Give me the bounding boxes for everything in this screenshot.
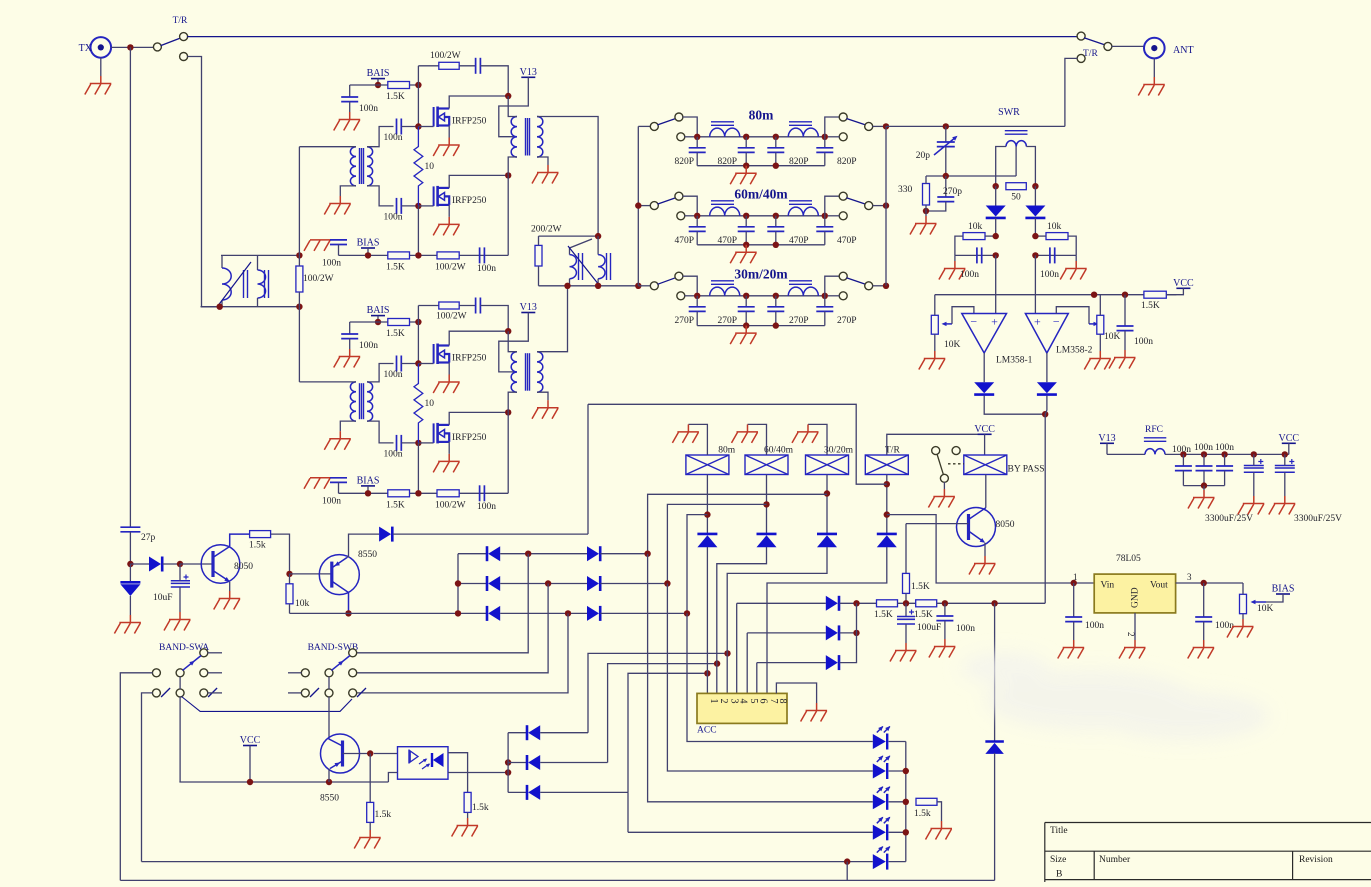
svg-text:10k: 10k (968, 222, 983, 232)
ground rfc caps (1188, 490, 1215, 509)
svg-text:1.5K: 1.5K (386, 92, 405, 102)
svg-text:820P: 820P (789, 157, 809, 167)
wire T3 w1 top lead (570, 239, 593, 255)
svg-text:100n: 100n (1172, 445, 1191, 455)
switch LPF-60m40m right nc (839, 212, 847, 220)
capacitor 100n PA-B gate2 (397, 435, 402, 451)
wire fwd down1 (995, 186, 997, 205)
wire bus link (846, 862, 848, 881)
svg-text:100/2W: 100/2W (436, 312, 467, 322)
junction PA-A gate2 (415, 203, 421, 209)
wire T3 w1 bottom lead (569, 279, 571, 286)
switch LPF-80m right throw (839, 113, 847, 121)
junction led2 chain (903, 768, 909, 774)
PA-B net V13 bar (521, 312, 535, 314)
connector ACC box (697, 693, 787, 723)
ground PA-B fet1 (433, 375, 460, 394)
inductor LPF-80m L1 (710, 128, 740, 137)
wire 100n left row (955, 254, 996, 256)
wire SWB mid left stub (288, 672, 302, 674)
wire bias route (1266, 594, 1283, 602)
resistor 50 (1006, 183, 1026, 190)
wire T3 variable slash (568, 246, 598, 283)
ground PA-B T2 (532, 400, 559, 419)
wire LPF-60m40m node to right throw (825, 196, 840, 216)
inductor LPF-80m L1 core (711, 122, 734, 126)
wire q2 diode out (393, 533, 588, 535)
wire SWB pole link (328, 677, 330, 690)
svg-text:100uF: 100uF (917, 623, 941, 633)
capacitor 20p trimmer (937, 142, 955, 147)
switch LPF-30m20m right throw (839, 272, 847, 280)
wire LPF-30m20m node to right throw (825, 276, 840, 296)
wire SWB pole2 down (328, 697, 330, 739)
wire q5 collector up (329, 739, 343, 747)
capacitor 270P LPF-30m20m 1 (689, 307, 706, 312)
svg-text:100n: 100n (322, 496, 341, 506)
wire col row2 riser (608, 664, 718, 763)
wire rail relay3 (648, 494, 827, 553)
wire SWR tap row (926, 175, 1016, 177)
junction detector in (127, 561, 133, 567)
PA-A net BAIS bar (371, 78, 385, 80)
wire TX node down to 27p (129, 47, 131, 527)
wire rfc cap3 lead2 (1224, 471, 1226, 486)
wire PA-A fet1 source (448, 126, 450, 138)
svg-text:80m: 80m (749, 107, 775, 122)
capacitor 270P LPF-30m20m 4 (816, 307, 833, 312)
wire 100n rail lead (944, 603, 946, 616)
wire 1.5k q5 lead (369, 822, 371, 830)
capacitor 470P LPF-60m40m 1 (689, 227, 706, 232)
wire q5 emitter down (328, 769, 330, 783)
junction LPF-30m20m node x775 (773, 293, 779, 299)
svg-text:1.5K: 1.5K (911, 582, 930, 592)
switch SWA mid left (152, 669, 160, 677)
wire ref down2 (1034, 218, 1036, 236)
transformer T0 winding 2 (258, 270, 266, 298)
svg-text:100n: 100n (384, 133, 403, 143)
junction PA-A bus bottom (415, 252, 421, 258)
wire SWR sec left (996, 147, 1006, 187)
svg-text:30m/20m: 30m/20m (734, 266, 788, 281)
potentiometer 10K right wiper arrow (1089, 323, 1096, 325)
switch LPF-80m left nc (677, 133, 685, 141)
switch LPF-60m40m left nc (677, 212, 685, 220)
wire rfc cap2 lead (1203, 454, 1205, 466)
wire opto out1 (448, 753, 468, 793)
ground PA-A T1 (324, 196, 351, 215)
wire opamp2 out (1046, 353, 1048, 382)
junction rfc cap2 (1201, 451, 1207, 457)
wire q1 emitter down (229, 582, 231, 591)
junction T3 bottom left (564, 283, 570, 289)
wire LPF-60m40m right blade (846, 198, 865, 204)
wire PA-A T2 right top out (537, 117, 598, 237)
switch SWB bot left (301, 689, 309, 697)
svg-text:1.5K: 1.5K (874, 610, 893, 620)
junction SWR tap (943, 173, 949, 179)
wire rfc cap2 lead2 (1203, 471, 1205, 486)
wire col diode row 762 a (508, 762, 527, 764)
net VCC relays bar (978, 433, 992, 435)
transformer T3 winding 1 (570, 255, 577, 279)
wire PA-A top row a (418, 65, 438, 67)
junction rail pot2 (1091, 292, 1097, 298)
diode drive row2 (826, 625, 839, 640)
wire matrix row2 a (458, 583, 487, 585)
wire 330 top lead (925, 176, 927, 184)
capacitor 270P LPF-30m20m 3 (767, 307, 784, 312)
capacitor 270P LPF-30m20m 2 (738, 307, 755, 312)
svg-text:330: 330 (898, 185, 913, 195)
wire top T/R to ANT T/R (187, 36, 1077, 38)
ground 100n rail (929, 639, 956, 658)
junction T3 bottom right (595, 283, 601, 289)
svg-text:8050: 8050 (234, 562, 253, 572)
junction led4 chain (903, 829, 909, 835)
wire v13 stub (1106, 443, 1108, 454)
wire LPF-30m20m cap4 lead (824, 296, 826, 307)
wire q1 collector (213, 534, 250, 557)
wire PA-A BIAS stub (367, 248, 369, 255)
svg-text:100n: 100n (956, 624, 975, 634)
wire PA-A bus mid (417, 206, 419, 256)
wire LPF-30m20m cap3 lead2 (775, 311, 777, 325)
wire balun w2 bottom lead (257, 298, 259, 307)
svg-text:7: 7 (768, 699, 779, 704)
ground pot1 (919, 351, 946, 370)
wire diode sense down (994, 753, 996, 880)
switch ANT T/R pole (1104, 42, 1112, 50)
junction 330 bottom (923, 208, 929, 214)
wire pot1 top (934, 295, 936, 316)
wire q3 base to 1.5K (905, 524, 907, 574)
junction LPF-60m40m node x746 (743, 213, 749, 219)
wire LPF-80m right blade (846, 119, 865, 125)
junction relay x707 drive (704, 511, 710, 517)
switch LPF-80m left throw (675, 113, 683, 121)
junction q2 collector (345, 610, 351, 616)
svg-text:10uF: 10uF (153, 593, 173, 603)
wire LPF-80m right nc stub (828, 136, 840, 138)
wire LPF-60m40m pole to bus (872, 205, 886, 207)
wire opto diode bus (507, 733, 509, 793)
switch LPF-60m40m left throw (675, 192, 683, 200)
junction regulator input (1071, 580, 1077, 586)
switch SWB mid right (349, 669, 357, 677)
transistor Q-PA-A1 IRFP250 (434, 107, 450, 128)
wire T/R drive (588, 404, 887, 484)
junction LPF-80m node x746 (743, 134, 749, 140)
wire PA-A fet2 source (448, 205, 450, 217)
wire SWA mid left bus (120, 673, 152, 881)
transformer PA-A T1 core (360, 148, 364, 184)
PA-B net BIAS bar (361, 485, 375, 487)
svg-text:V13: V13 (520, 302, 537, 313)
title block frame (1045, 823, 1371, 883)
switch SWA bot left (152, 689, 160, 697)
wire rail mid a (898, 602, 916, 604)
net BIAS out bar (1276, 593, 1290, 595)
diode q2 out (379, 527, 392, 542)
switch LPF-80m right nc (839, 133, 847, 141)
junction bulk cap2 (1282, 451, 1288, 457)
ground 330/270p (910, 216, 937, 235)
transformer SWR core (1005, 131, 1028, 135)
junction PA-A BIAS bot (365, 252, 371, 258)
capacitor 100n PA-A bias top (341, 97, 358, 102)
junction rail 100n node (942, 600, 948, 606)
svg-text:100n: 100n (384, 370, 403, 380)
svg-text:470P: 470P (717, 236, 737, 246)
transformer PA-A T2 right winding (537, 117, 543, 158)
junction q5 base node (367, 750, 373, 756)
op-amp LM358-2 (1025, 314, 1068, 354)
junction 20p top (943, 123, 949, 129)
wire PA-B BAIS stub (377, 316, 379, 322)
svg-text:10K: 10K (944, 340, 961, 350)
svg-text:10: 10 (425, 162, 435, 172)
potentiometer 10K right (1097, 315, 1104, 334)
wire PA-A gate1 to fet (418, 126, 433, 128)
wire 100n opamp lead2 (1124, 331, 1126, 350)
wire 1.5K q3 lead (905, 593, 907, 603)
capacitor 100n rfc 1 (1175, 466, 1192, 471)
resistor 1.5K q3 (903, 573, 910, 593)
optocoupler U-opto box (398, 747, 449, 780)
junction PA-B drain1 (505, 328, 511, 334)
switch SWA lower blade stub (161, 688, 170, 697)
switch T/R contact up (180, 33, 188, 41)
wire rfc cap3 lead (1224, 454, 1226, 466)
wire col diode row 792 b (540, 791, 628, 793)
wire LPF-80m bus to pole (638, 125, 650, 127)
diode column y732 (527, 725, 540, 740)
wire relay x827 bottom (826, 475, 828, 534)
wire q2 base (290, 573, 332, 575)
switch SWA bot right (200, 689, 208, 697)
svg-text:27p: 27p (141, 533, 156, 543)
watermark smudge (960, 652, 1270, 740)
switch SWA mid blade stub (208, 688, 217, 697)
wire 330 bot lead (925, 205, 927, 216)
switch LPF-60m40m left pole (650, 202, 658, 210)
wire LPF-80m cap1 lead2 (696, 152, 698, 165)
capacitor 100n swr left (977, 247, 982, 263)
wire pot2 top (1099, 295, 1101, 316)
ground q1 (214, 591, 241, 610)
connector TX (91, 37, 112, 58)
capacitor 3300uF 1 (1244, 466, 1264, 473)
wire T/R lower throw to input (187, 57, 219, 307)
svg-text:1.5K: 1.5K (1141, 301, 1160, 311)
wire input res bottom lead (298, 292, 300, 307)
wire LPF-30m20m cap1 lead (696, 296, 698, 307)
wire LPF-30m20m left blade (658, 278, 676, 285)
svg-text:1.5k: 1.5k (914, 809, 931, 819)
wire matrix row2 c (600, 583, 667, 585)
wire LPF-80m pole to bus (872, 125, 886, 127)
resistor 10k q2 (286, 584, 293, 604)
wire led3 cathode (889, 801, 906, 803)
wire row2 to SWB (356, 584, 548, 673)
junction balun bottom left (217, 304, 223, 310)
wire vcc stub down (249, 746, 251, 783)
resistor 1.5K PA-A top (388, 82, 410, 89)
transformer PA-A T1 right winding (367, 147, 373, 186)
relay 80m (686, 455, 729, 475)
capacitor 100n reg in (1065, 617, 1082, 622)
diode drive row3 (826, 655, 839, 670)
wire rail relay2 (667, 504, 766, 583)
transistor Q-PA-B1 IRFP250 (434, 344, 450, 365)
junction acc pin3 node (724, 650, 730, 656)
wire led res to gnd (937, 802, 942, 821)
svg-text:GND: GND (1131, 587, 1141, 608)
svg-text:470P: 470P (789, 236, 809, 246)
switch SWB pole 2 (325, 689, 333, 697)
svg-text:100/2W: 100/2W (435, 500, 466, 510)
trimmer arrow 20p (934, 137, 956, 155)
svg-text:Size: Size (1050, 855, 1066, 865)
ground PA-A fet2 (433, 217, 460, 236)
svg-text:270P: 270P (717, 316, 737, 326)
wire 10uF lead1 (179, 564, 181, 581)
diode drive row1 (826, 596, 839, 611)
junction PA-B bus bottom (415, 490, 421, 496)
junction LPF-30m20m node x824 (822, 293, 828, 299)
capacitor 820P LPF-80m 4 (816, 148, 833, 153)
wire SWR sec right (1026, 147, 1035, 187)
junction matrix row3 bus (455, 610, 461, 616)
svg-text:LM358-2: LM358-2 (1056, 346, 1093, 356)
wire LPF-30m20m gnd rail (697, 325, 825, 327)
svg-text:470P: 470P (837, 236, 857, 246)
diode column y762 (527, 755, 540, 770)
wire LPF-80m left throw to node (683, 117, 698, 137)
wire acc pin5 riser (746, 633, 748, 694)
wire LPF-60m40m cap2 lead (745, 216, 747, 227)
transformer T3 core 1 (579, 253, 583, 280)
wire 10k right lead (1035, 235, 1046, 237)
wire q3 emitter down (984, 543, 986, 556)
capacitor 100n PA-B bias top (341, 334, 358, 339)
wire PA-B right bus (507, 412, 509, 493)
junction matrix row2 right (664, 580, 670, 586)
wire row3 to SWB (356, 613, 568, 693)
capacitor 100n opamp (1117, 326, 1134, 331)
net V13 rfc bar (1100, 442, 1114, 444)
junction rail led feed (991, 600, 997, 606)
junction LPF-80m node x775 (773, 134, 779, 140)
wire vcc stub opamp (1166, 288, 1183, 294)
junction matrix row1 right (644, 551, 650, 557)
wire PA-B bias top row (350, 321, 419, 323)
switch LPF-30m20m left pole (650, 282, 658, 290)
inductor LPF-30m20m L2 (788, 287, 818, 296)
switch SWA pole 1 (176, 669, 184, 677)
wire PA-A right bus (507, 175, 509, 255)
wire LPF-60m40m cap4 lead2 (824, 231, 826, 244)
capacitor 100n reg out (1195, 617, 1212, 622)
wire swr gnd left stub (954, 255, 956, 261)
wire PA-B bus to top row (417, 306, 419, 323)
svg-text:BAIS: BAIS (367, 68, 390, 79)
junction 50 right (1032, 183, 1038, 189)
wire PA-B T1 primary bottom (340, 421, 356, 431)
wire PA-B fet1 source (448, 363, 450, 375)
ground 1.5k q5 (354, 830, 381, 849)
wire PA-B gate2 lead (401, 442, 418, 444)
inductor LPF-60m40m L2 (788, 207, 818, 216)
wire q3 collector (969, 508, 986, 520)
wire LPF-30m20m cap4 lead2 (824, 311, 826, 325)
switch SWA arrow blade (183, 656, 202, 671)
capacitor 100n PA-A bias bottom (330, 240, 347, 245)
wire 10k left lead (985, 235, 996, 237)
switch ANT T/R contact low (1077, 54, 1085, 62)
resistor 10k left (963, 233, 985, 240)
svg-text:270p: 270p (943, 187, 962, 197)
switch LPF-80m left pole (650, 122, 658, 130)
switch LPF-30m20m left nc (677, 292, 685, 300)
wire ref down1 (1034, 186, 1036, 205)
capacitor 470P LPF-60m40m 2 (738, 227, 755, 232)
wire aux to gnd (943, 482, 945, 489)
ground PA-A bias bot cap (304, 240, 331, 251)
ground PA-A T2 (532, 165, 559, 184)
resistor 1.5k led (916, 798, 937, 805)
optocoupler LED (408, 750, 410, 764)
svg-text:10k: 10k (295, 599, 310, 609)
linkage dotted aux to bypass relay (948, 463, 964, 465)
ground LPF-60m40m (730, 245, 757, 263)
ground relay x766 (732, 424, 759, 443)
svg-text:10: 10 (425, 399, 435, 409)
regulator 78L05 box (1094, 574, 1175, 613)
net VCC opamp bar (1176, 287, 1190, 289)
switch aux pole (932, 447, 940, 455)
junction TX node (127, 44, 133, 50)
wire LPF-60m40m node row (697, 215, 825, 217)
junction PA-B gate2 (415, 440, 421, 446)
wire PA-B 100n bias lead (349, 322, 351, 334)
wire 20p lead1 (945, 126, 947, 142)
junction bulk cap1 (1251, 451, 1257, 457)
wire row2 to chain (840, 632, 857, 634)
svg-text:20p: 20p (916, 151, 931, 161)
junction acc pin2 node (714, 660, 720, 666)
svg-text:6: 6 (758, 699, 769, 704)
LED band 3 (873, 786, 891, 810)
resistor 1.5K PA-B top (388, 319, 410, 326)
wire PA-A top row b (459, 65, 475, 67)
wire LPF-30m20m node row (697, 295, 825, 297)
relay T/R (865, 455, 908, 475)
capacitor 27p (120, 527, 140, 532)
wire matrix row3 c (600, 612, 687, 614)
wire SWA bot right stub (208, 692, 223, 694)
switch SWA mid right (200, 669, 208, 677)
junction LPF-30m20m right bus (883, 283, 889, 289)
capacitor 100n PA-B gate1 (397, 356, 402, 372)
transistor Q-PA-A2 IRFP250 (434, 186, 450, 207)
wire 270p lead1 (945, 176, 947, 197)
wire PA-B top row b (459, 305, 475, 307)
net VCC right bar (1282, 442, 1296, 444)
ground swr left (939, 261, 966, 280)
